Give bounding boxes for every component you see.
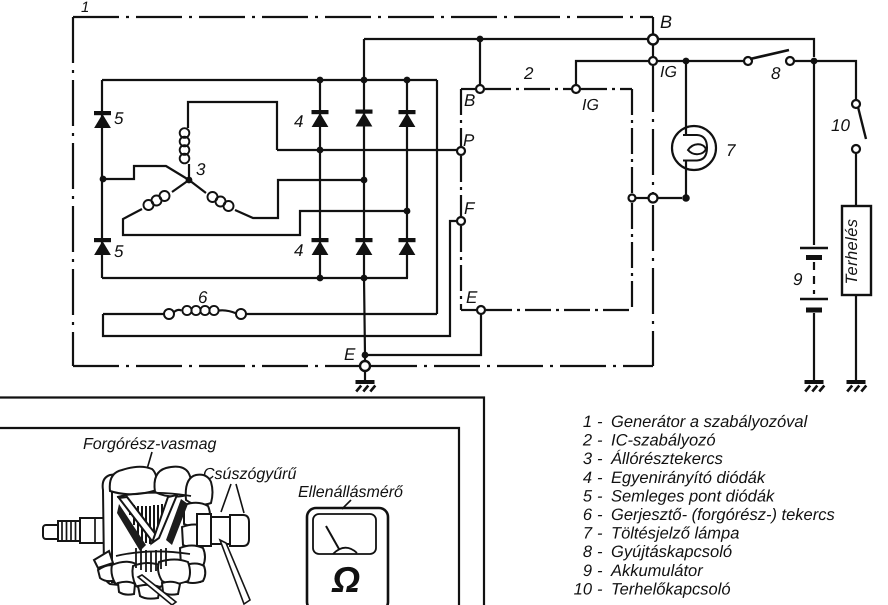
svg-text:Töltésjelző lámpa: Töltésjelző lámpa (611, 525, 739, 543)
wire diode column 1 (319, 80, 321, 278)
svg-text:3: 3 (196, 160, 206, 179)
diode 4 bottom col1 (312, 239, 328, 255)
wire B terminal to battery node (658, 39, 814, 57)
wire IG regulator riser (576, 61, 649, 85)
coil right phase (189, 180, 206, 193)
field winding 6 line (103, 313, 164, 315)
wire neutral to star (103, 166, 189, 180)
ground (E) (356, 382, 867, 392)
wire B to regulator (479, 39, 481, 85)
claw interior dark gap right of V (166, 499, 188, 545)
battery 9 (800, 247, 828, 249)
svg-text:B: B (464, 91, 475, 110)
svg-text:-: - (597, 487, 603, 505)
svg-text:Semleges pont diódák: Semleges pont diódák (611, 487, 775, 505)
claw bottom knuckle 2 (132, 563, 164, 589)
diode 4 top col2 (356, 110, 372, 126)
claw bottom knuckle 3 (158, 560, 190, 585)
svg-text:Ω: Ω (331, 559, 360, 600)
svg-text:-: - (597, 450, 603, 468)
wire switch8 to load corner (794, 61, 856, 100)
wire field left end to F (103, 221, 457, 336)
wire stator top rail (102, 79, 437, 81)
svg-text:IG: IG (582, 97, 599, 114)
svg-text:7: 7 (583, 525, 593, 543)
svg-text:4: 4 (583, 469, 592, 487)
svg-text:10: 10 (574, 580, 593, 598)
rotor shaft cylinder (80, 518, 104, 543)
claw top right knuckle (186, 475, 213, 505)
ohmmeter (307, 508, 388, 605)
svg-text:6: 6 (198, 288, 208, 307)
svg-text:Ellenállásmérő: Ellenállásmérő (298, 484, 404, 501)
svg-text:Forgórész-vasmag: Forgórész-vasmag (83, 436, 216, 453)
slip ring 2 (230, 515, 249, 546)
svg-text:5: 5 (114, 109, 124, 128)
svg-text:2: 2 (582, 432, 592, 450)
wire battery riser (813, 61, 815, 245)
ground (battery) (805, 382, 825, 392)
svg-text:5: 5 (583, 487, 593, 505)
svg-text:Csúszógyűrű: Csúszógyűrű (203, 466, 297, 483)
switch 10 contacts (852, 100, 860, 108)
switch 8 lever (750, 50, 789, 59)
probe on slip ring (220, 540, 250, 604)
wire switch10 to load box (855, 153, 857, 206)
claw top knuckle B (154, 467, 191, 497)
diode 5 top (95, 112, 111, 128)
ohmmeter needle (326, 526, 339, 549)
svg-text:Egyenirányító diódák: Egyenirányító diódák (611, 469, 766, 487)
node B (box1 terminal) (652, 17, 654, 34)
svg-text:-: - (597, 562, 603, 580)
svg-text:-: - (597, 413, 603, 431)
wire E network (364, 278, 365, 361)
svg-text:IC-szabályozó: IC-szabályozó (611, 432, 716, 450)
claw interior V white finger outlines (119, 497, 157, 541)
ohmmeter scale arc (333, 548, 357, 554)
svg-text:-: - (597, 543, 603, 561)
node P (box2 terminal) (457, 147, 465, 155)
svg-text:9: 9 (793, 270, 803, 289)
svg-text:Gerjesztő- (forgórész-) tekerc: Gerjesztő- (forgórész-) tekercs (611, 506, 835, 524)
wire load box to ground (855, 295, 857, 380)
wire diode column 3 (406, 80, 408, 278)
svg-text:2: 2 (523, 64, 534, 83)
node F (box2 terminal) (457, 217, 465, 225)
svg-text:8: 8 (771, 64, 781, 83)
diode 4 bottom col3 (399, 239, 415, 255)
svg-text:7: 7 (726, 141, 736, 160)
brush circle right (236, 309, 246, 319)
lamp 7 circle (672, 126, 716, 170)
coil left phase (172, 180, 189, 192)
claw interior lower band (116, 551, 190, 556)
node L (box1 terminal) (649, 194, 658, 203)
claw interior dark gap left of V (117, 504, 146, 551)
svg-text:3: 3 (583, 450, 593, 468)
claw bottom small tips (118, 582, 135, 595)
svg-text:F: F (464, 199, 476, 218)
node B (box2 terminal) (476, 85, 484, 93)
brush circle left (164, 309, 174, 319)
lower figure double border (0, 398, 484, 605)
lamp filament loop (688, 144, 706, 154)
wire diode column 2 (363, 39, 365, 278)
node E (box1 terminal) (360, 361, 370, 371)
wire neutral rail left (101, 80, 103, 278)
svg-text:IG: IG (660, 64, 677, 81)
svg-text:4: 4 (294, 112, 303, 131)
svg-text:4: 4 (294, 241, 303, 260)
wire B output (364, 38, 648, 40)
wire E circle to ground (364, 371, 366, 380)
rotor left rim plate (103, 474, 119, 585)
svg-text:Terhelőkapcsoló: Terhelőkapcsoló (611, 580, 731, 598)
wire bottom DC- rail (102, 277, 408, 279)
rotor slip ring collar (197, 514, 211, 546)
wire lamp bottom (685, 160, 687, 198)
node IG (box2 terminal) (572, 85, 580, 93)
IC regulator box 2 border (dash-dot) (461, 89, 632, 310)
wire L terminals link (636, 197, 650, 199)
legend (574, 413, 835, 598)
diode 4 top col1 (312, 111, 328, 127)
switch 8 contacts (744, 57, 752, 65)
claw right knuckle stack (184, 503, 210, 527)
svg-text:1: 1 (583, 413, 592, 431)
svg-text:B: B (660, 12, 672, 32)
wire lamp feed (685, 61, 687, 136)
claw interior lower hatch (136, 548, 166, 572)
wire P line (277, 149, 457, 151)
claw interior hatched triangle between V arms (128, 502, 168, 540)
svg-text:Gyújtáskapcsoló: Gyújtáskapcsoló (611, 543, 732, 561)
node L (box2 terminal) (629, 195, 636, 202)
rotor body core (112, 478, 200, 582)
coil top phase (stator) (188, 164, 190, 179)
load box (Terhelés) (842, 206, 871, 295)
rotor shaft threads (58, 521, 81, 541)
svg-text:-: - (597, 525, 603, 543)
node E (box2 terminal) (477, 306, 485, 314)
ground (load) (847, 382, 867, 392)
svg-text:8: 8 (583, 543, 593, 561)
svg-text:Állórésztekercs: Állórésztekercs (610, 449, 723, 468)
rotor drawing (43, 467, 250, 605)
claw bottom-right small knuckles (183, 564, 205, 584)
svg-text:Akkumulátor: Akkumulátor (610, 562, 704, 580)
svg-text:-: - (597, 506, 603, 524)
svg-text:1: 1 (81, 0, 89, 16)
claw interior top rim band (117, 493, 191, 497)
generator box 1 border (dash-dot) (73, 17, 653, 366)
probe lower left (138, 575, 176, 605)
svg-text:-: - (597, 432, 603, 450)
svg-text:P: P (463, 131, 475, 150)
diode 4 bottom col2 (356, 239, 372, 255)
diode 4 top col3 (399, 111, 415, 127)
rotor shaft left end cap (43, 525, 60, 539)
diode 5 bottom (95, 239, 111, 255)
svg-text:Generátor a szabályozóval: Generátor a szabályozóval (611, 413, 809, 431)
svg-text:-: - (597, 580, 603, 598)
slip ring 1 (211, 517, 230, 544)
wire top phase (188, 102, 277, 150)
lamp bulb glass (683, 135, 707, 161)
svg-text:10: 10 (831, 116, 850, 135)
wire right edge / field feed (436, 80, 438, 314)
claw bottom left tip 2 (98, 565, 117, 581)
claw top knuckle A (110, 467, 157, 495)
wire IG terminal to switch 8 (657, 60, 744, 62)
switch 10 lever (858, 107, 866, 139)
svg-text:6: 6 (583, 506, 593, 524)
svg-text:-: - (597, 469, 603, 487)
coil field winding (174, 310, 182, 313)
diodes (cathode bar + triangle up) (95, 110, 416, 255)
svg-text:Terhelés: Terhelés (843, 219, 861, 285)
svg-text:E: E (466, 288, 478, 307)
svg-text:E: E (344, 345, 356, 364)
svg-text:9: 9 (583, 562, 592, 580)
claw bottom left tip (94, 551, 113, 568)
claw bottom knuckle 1 (111, 562, 138, 586)
svg-text:5: 5 (114, 242, 124, 261)
node IG (box1 terminal) (649, 57, 657, 65)
